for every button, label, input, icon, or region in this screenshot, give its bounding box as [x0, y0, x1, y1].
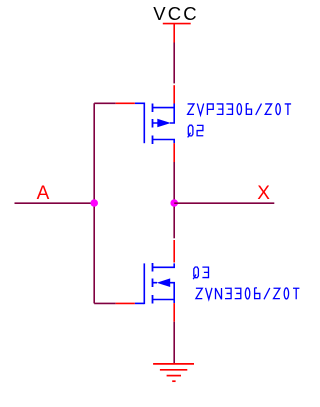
gate bar Q3 [143, 263, 145, 304]
svg-text:A: A [37, 183, 50, 204]
label Q3 value ZVN3306/S0T [196, 288, 300, 300]
pin Q2 drain (red) [173, 143, 175, 162]
plate top Q2 [152, 104, 154, 113]
svg-text:VCC: VCC [153, 3, 199, 24]
gate lead Q3 [135, 302, 145, 304]
plate bottom Q2 [152, 136, 154, 145]
gate bar Q2 [143, 103, 145, 144]
power bar VCC [163, 23, 191, 25]
pin Q3 source (red) [173, 303, 175, 322]
wire input A [15, 202, 95, 204]
drain line Q3 [153, 263, 175, 267]
svg-text:X: X [257, 183, 270, 204]
junction node X [170, 199, 178, 207]
plate middle Q2 [152, 119, 154, 128]
drain line Q2 [153, 140, 175, 144]
source line Q2 [153, 104, 175, 108]
plate middle Q3 [152, 279, 154, 288]
ground bar 3 [167, 375, 181, 377]
bulk line Q2 with arrow [153, 108, 175, 123]
transistor Q2 PMOS symbol [135, 103, 174, 145]
plate bottom Q3 [152, 295, 154, 304]
ground symbol [153, 364, 194, 381]
gate lead Q2 [135, 102, 145, 104]
label Q3 designator [193, 267, 208, 279]
label Q2 value ZVP3306/S0T [188, 103, 292, 115]
transistor Q3 NMOS symbol [135, 263, 174, 304]
bulk line Q3 with arrow [153, 283, 175, 300]
bulk arrow Q3 (points left) [157, 278, 171, 287]
label Q2 designator [188, 125, 204, 137]
ground bar 2 [160, 369, 187, 371]
wire Q2 drain to node X [173, 162, 175, 203]
pin Q3 gate (red) [116, 302, 135, 304]
power pin (VCC symbol pin) [173, 24, 175, 43]
wire node X to Q3 drain [173, 203, 175, 238]
source line Q3 [153, 300, 175, 304]
pin Q2 gate (red) [116, 102, 135, 104]
junction node A [90, 199, 98, 207]
wire gate bus bottom horizontal to Q3 gate [94, 302, 116, 304]
pin Q2 source (red) [173, 85, 175, 103]
ground bar 1 [153, 363, 194, 365]
wire gate bus top horizontal to Q2 gate [94, 102, 116, 104]
wire gate bus vertical [93, 103, 95, 303]
wire Q3 source to ground [173, 322, 175, 364]
pin Q3 drain (red) [173, 240, 175, 263]
wire output X [174, 202, 274, 204]
wire VCC to Q2 source [173, 43, 175, 84]
ground bar 4 [172, 380, 175, 382]
bulk arrow Q2 (points right) [157, 119, 171, 128]
plate top Q3 [152, 263, 154, 272]
